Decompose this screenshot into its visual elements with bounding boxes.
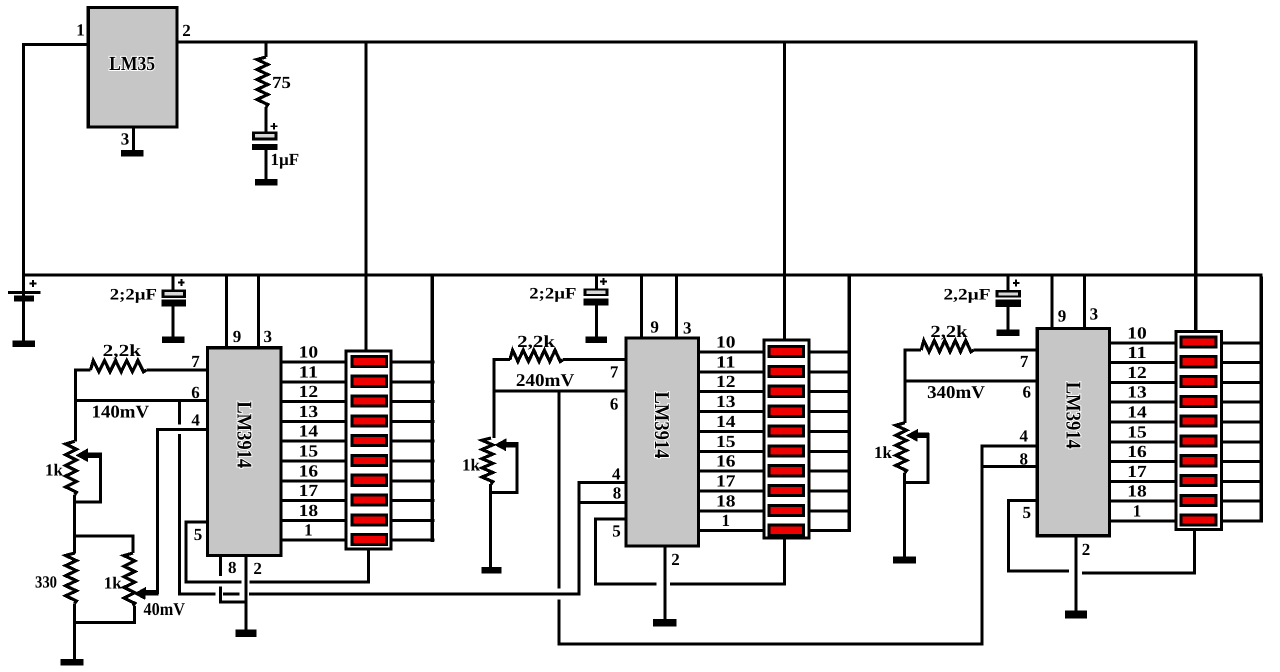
wire pin4 vertical to wiper 40mV <box>156 428 159 594</box>
wire bus to capacitor C3 <box>1006 277 1009 291</box>
wire IC3 to LED3 row 14 <box>1111 421 1175 424</box>
svg-text:4: 4 <box>1020 427 1029 446</box>
wire IC1 pin3 from bus <box>257 277 260 347</box>
wire LED1 row 14 to anode bus <box>393 440 435 443</box>
wire chain right vertical to IC3 pin4 <box>981 445 984 644</box>
svg-text:LM35: LM35 <box>109 53 155 75</box>
wire C1 to ground <box>172 306 175 336</box>
ic U1 LM35 body <box>88 7 177 127</box>
battery B1 positive plate <box>8 291 41 294</box>
wire LED2 anode bus vertical <box>848 277 852 533</box>
svg-text:1k: 1k <box>104 574 123 593</box>
svg-text:3: 3 <box>121 130 130 149</box>
svg-text:10: 10 <box>716 333 736 352</box>
wire V+ bus horizontal <box>22 274 1263 277</box>
wire IC2 to LED2 row 15 <box>700 450 762 453</box>
svg-text:18: 18 <box>716 491 736 510</box>
svg-text:14: 14 <box>716 412 736 431</box>
svg-text:10: 10 <box>1127 323 1147 342</box>
svg-text:13: 13 <box>1127 383 1147 402</box>
wire line B 40mV left segment <box>178 592 215 595</box>
capacitor C1 bottom plate <box>161 300 186 307</box>
wire R1 to capacitor C0 <box>265 107 268 132</box>
wire IC1 pin8 lower segment <box>219 586 222 602</box>
wire IC1 to LED1 row 11 <box>283 380 345 383</box>
led DS2 segment 7 <box>769 466 804 476</box>
ground IC1 pin2 <box>235 630 256 637</box>
capacitor C1 2;2uF top plate <box>161 290 186 298</box>
svg-text:16: 16 <box>1127 442 1147 461</box>
wire top rail from LM35 pin2 to right side <box>178 41 1198 44</box>
wire IC2 to LED2 row 11 <box>700 370 762 373</box>
svg-text:8: 8 <box>228 558 237 577</box>
wire IC1 to LED1 row 14 <box>283 440 345 443</box>
wire LED2 row 15 to anode bus <box>810 450 851 453</box>
ground C1 <box>162 337 185 343</box>
wire LED1 anode bus vertical <box>431 277 435 542</box>
wire down to P2 <box>132 535 135 554</box>
svg-text:5: 5 <box>612 521 621 540</box>
wire LED3 row 18 to anode bus <box>1223 500 1261 503</box>
wire LED3 row 12 to anode bus <box>1223 381 1261 384</box>
wire IC2 to LED2 row 10 <box>700 351 762 354</box>
led DS2 segment 9 <box>769 505 804 515</box>
wire node140 vertical upper segment <box>178 399 181 425</box>
wire LED2 row 1 to anode bus <box>810 529 851 532</box>
svg-text:3: 3 <box>1090 305 1099 324</box>
svg-text:11: 11 <box>299 362 319 381</box>
led DS3 segment 8 <box>1181 476 1216 486</box>
wire LED3 row 14 to anode bus <box>1223 421 1261 424</box>
resistor R5 2,2k <box>921 341 973 352</box>
wire bus to capacitor C1 <box>172 277 175 290</box>
capacitor C2 bottom plate <box>584 298 609 305</box>
wire section1 to ground <box>73 603 76 659</box>
wire IC2 pin9 from bus <box>640 277 643 337</box>
svg-text:7: 7 <box>191 352 200 371</box>
wire pin5 vertical section3 <box>1007 499 1010 572</box>
wire LED1 row 11 to anode bus <box>393 380 435 383</box>
svg-text:2: 2 <box>182 21 191 40</box>
svg-text:14: 14 <box>299 422 319 441</box>
svg-text:9: 9 <box>233 327 242 346</box>
wire IC2 to LED2 row 12 <box>700 390 762 393</box>
wire IC3 to LED3 row 11 <box>1111 361 1175 364</box>
svg-text:2: 2 <box>253 559 262 578</box>
svg-text:13: 13 <box>716 392 736 411</box>
svg-text:2;2µF: 2;2µF <box>110 287 157 304</box>
ic U2 LM3914 body section1 <box>208 348 281 556</box>
svg-text:240mV: 240mV <box>516 370 574 390</box>
svg-text:2,2k: 2,2k <box>930 322 968 341</box>
led DS3 segment 2 <box>1181 357 1216 367</box>
wire IC3 pin3 from bus <box>1083 277 1086 327</box>
capacitor C2 2;2uF top plate <box>584 289 609 296</box>
wiper arrow P1 <box>84 452 101 458</box>
battery B1 negative plate <box>14 295 34 301</box>
wire IC1 to LED1 row 16 <box>283 479 345 482</box>
wire LED1 row 15 to anode bus <box>393 460 435 463</box>
plus sign C1 <box>178 282 185 284</box>
wire IC1 pin5 <box>184 521 206 524</box>
wire LED1 row 16 to anode bus <box>393 479 435 482</box>
wire IC2 pin4 vertical to line B <box>577 481 580 595</box>
led DS2 segment 10 <box>769 525 804 535</box>
wire left vertical section2 <box>492 358 495 438</box>
ground P4 <box>893 557 916 564</box>
svg-text:140mV: 140mV <box>92 402 150 422</box>
wire below P4 to ground <box>903 473 906 557</box>
wire IC2 to LED2 row 18 <box>700 509 762 512</box>
wire LED3 anode bus vertical <box>1260 277 1264 523</box>
wire LED2 feed from top rail <box>783 44 786 339</box>
ground P3 <box>481 567 501 573</box>
svg-text:11: 11 <box>1127 343 1147 362</box>
resistor R4 2,2k <box>510 350 563 361</box>
wire IC3 pin5 <box>1007 499 1036 502</box>
svg-text:15: 15 <box>1127 422 1147 441</box>
led DS2 segment 6 <box>769 446 804 456</box>
resistor R2 2,2k <box>91 361 147 372</box>
svg-text:5: 5 <box>194 525 203 544</box>
svg-text:330: 330 <box>35 573 57 592</box>
wiper arrow P4 <box>913 433 929 439</box>
wire IC3 to LED3 row 17 <box>1111 480 1175 483</box>
wire stub left of resistor R5 <box>904 349 922 352</box>
svg-text:17: 17 <box>1127 462 1147 481</box>
capacitor C0 bottom plate <box>252 144 278 150</box>
wire battery to ground <box>22 301 25 340</box>
led DS3 segment 3 <box>1181 377 1216 387</box>
wire LED3 row 13 to anode bus <box>1223 401 1261 404</box>
svg-text:40mV: 40mV <box>144 599 186 619</box>
led bargraph DS1 body <box>346 351 391 549</box>
svg-text:1: 1 <box>722 511 731 530</box>
wire IC2 pin8 <box>577 501 624 504</box>
wire IC1 to LED1 row 12 <box>283 400 345 403</box>
svg-text:12: 12 <box>716 372 736 391</box>
led DS1 segment 6 <box>352 455 386 465</box>
wire IC2 to LED2 row 1 <box>700 529 762 532</box>
wire chain bottom horizontal <box>557 642 983 645</box>
svg-text:1: 1 <box>76 20 85 39</box>
wire IC1 to LED1 row 17 <box>283 499 345 502</box>
led DS2 segment 3 <box>769 386 804 396</box>
svg-text:LM3914: LM3914 <box>232 401 256 468</box>
led DS1 segment 2 <box>352 376 386 386</box>
wire wiper loop bottom P1 <box>73 501 102 504</box>
wire top rail from LM35 pin1 to left drop <box>22 43 87 46</box>
wire IC1 pin2 to ground <box>245 557 248 630</box>
resistor R1 75 ohm <box>257 57 268 107</box>
led DS1 segment 3 <box>352 396 386 406</box>
led DS2 segment 1 <box>769 347 804 357</box>
wire IC2 pin3 from bus <box>675 277 678 337</box>
wire pin5 vertical <box>184 521 187 584</box>
wire IC3 to LED3 row 16 <box>1111 460 1175 463</box>
svg-text:9: 9 <box>650 317 659 336</box>
wire IC3 pin6 <box>904 379 1036 382</box>
led DS1 segment 1 <box>352 356 386 366</box>
wire LM35 pin3 stub <box>132 129 135 151</box>
svg-text:17: 17 <box>716 472 736 491</box>
svg-text:12: 12 <box>299 382 319 401</box>
svg-text:7: 7 <box>1020 352 1029 371</box>
wire IC3 pin9 from bus <box>1051 277 1054 327</box>
led DS2 segment 8 <box>769 486 804 496</box>
wire left vertical drop to V+ bus <box>22 43 25 277</box>
wiper arrow P3 <box>502 442 517 448</box>
wire C0 to ground <box>265 150 268 179</box>
wire stub left of resistor R2 <box>74 369 90 372</box>
led DS3 segment 10 <box>1181 515 1216 525</box>
wire wiper loop vertical P1 <box>99 453 102 504</box>
wire below P1 <box>73 495 76 554</box>
svg-text:8: 8 <box>613 484 622 503</box>
wire LED2 row 11 to anode bus <box>810 370 851 373</box>
wire IC2 pin2 to ground <box>663 548 666 619</box>
ground section1 divider <box>61 659 84 666</box>
svg-text:11: 11 <box>716 352 736 371</box>
wire junction to P2 top <box>73 535 134 538</box>
svg-text:2: 2 <box>1082 540 1091 559</box>
svg-text:1k: 1k <box>45 461 64 480</box>
svg-text:1k: 1k <box>874 443 893 462</box>
wire line A pin5 left segment <box>184 581 241 584</box>
wire IC3 to LED3 row 10 <box>1111 341 1175 344</box>
wire LED1 row 1 to anode bus <box>393 539 435 542</box>
wire P2 bottom vertical <box>133 606 136 623</box>
ground battery <box>13 341 35 347</box>
wire LED2 cathode drop <box>783 539 786 584</box>
svg-text:4: 4 <box>612 465 621 484</box>
svg-text:1: 1 <box>1133 502 1142 521</box>
potentiometer P3 1k section2 <box>482 438 493 484</box>
wire node140 vertical lower segment to line B <box>178 434 181 595</box>
wire IC3 to LED3 row 13 <box>1111 401 1175 404</box>
wire LED2 row 16 to anode bus <box>810 470 851 473</box>
wire IC3 pin8 <box>981 465 1036 468</box>
wire IC3 pin4 <box>981 445 1036 448</box>
led DS1 segment 7 <box>352 475 386 485</box>
svg-text:2,2µF: 2,2µF <box>944 286 991 303</box>
svg-text:18: 18 <box>299 501 319 520</box>
wire wiper loop bottom P3 <box>490 491 519 494</box>
wire R4 to IC2 pin7 <box>563 358 624 361</box>
wire stub left of resistor R4 <box>492 358 510 361</box>
wire below P3 to ground <box>489 484 492 567</box>
wiper arrow P2 40mV <box>140 590 158 596</box>
wire LED3 row 10 to anode bus <box>1223 341 1261 344</box>
svg-text:1: 1 <box>304 521 313 540</box>
wire IC2 to LED2 row 16 <box>700 470 762 473</box>
potentiometer P1 1k section1 <box>66 441 77 495</box>
potentiometer P4 1k section3 <box>896 423 907 473</box>
led DS2 segment 2 <box>769 366 804 376</box>
led DS1 segment 8 <box>352 495 386 505</box>
wire IC1 pin8 upper segment <box>219 557 222 576</box>
wire left vertical section1 <box>74 369 77 442</box>
wire wiper loop vertical P4 <box>926 433 929 484</box>
plus sign C0 <box>271 125 278 127</box>
svg-text:16: 16 <box>716 452 736 471</box>
svg-text:15: 15 <box>299 442 319 461</box>
svg-text:3: 3 <box>683 318 692 337</box>
potentiometer P2 1k 40mV <box>124 553 135 606</box>
wire LED2 row 10 to anode bus <box>810 351 851 354</box>
wire R2 to IC1 pin7 <box>146 369 206 372</box>
capacitor C3 2,2uF top plate <box>995 290 1021 297</box>
svg-text:LM3914: LM3914 <box>1061 382 1085 449</box>
wire pin5 loop left segment section2 <box>594 582 657 585</box>
wire IC1 to LED1 row 18 <box>283 519 345 522</box>
wire IC2 to LED2 row 17 <box>700 490 762 493</box>
svg-text:2,2k: 2,2k <box>517 332 555 351</box>
wire pin8 to pin2 jumper <box>219 601 248 604</box>
wire chain vertical upper segment section2 <box>557 393 560 589</box>
wire chain vertical lower segment section2 <box>557 599 560 645</box>
ic U4 LM3914 body section3 <box>1037 328 1109 535</box>
svg-text:2: 2 <box>671 550 680 569</box>
svg-text:6: 6 <box>1022 383 1031 402</box>
wire pin5 loop right segment section2 <box>670 582 786 585</box>
ground IC2 pin2 <box>653 619 676 626</box>
led DS1 segment 9 <box>352 515 386 525</box>
wire wiper loop vertical P3 <box>515 442 518 494</box>
wire P2 bottom to main <box>73 621 136 624</box>
ground LM35 pin3 <box>121 150 144 156</box>
wire IC1 to LED1 row 1 <box>283 539 345 542</box>
led DS3 segment 1 <box>1181 337 1216 347</box>
wire left vertical section3 <box>904 349 907 423</box>
svg-text:1k: 1k <box>462 456 481 475</box>
led DS3 segment 6 <box>1181 436 1216 446</box>
svg-text:75: 75 <box>272 73 291 92</box>
wire LED1 feed from top rail <box>365 44 368 350</box>
led bargraph DS3 body <box>1176 332 1221 530</box>
wire LED2 row 12 to anode bus <box>810 390 851 393</box>
wire LED3 cathode drop <box>1193 531 1196 574</box>
wire IC3 to LED3 row 18 <box>1111 500 1175 503</box>
svg-text:17: 17 <box>299 481 319 500</box>
wire C3 to ground <box>1006 307 1009 330</box>
svg-text:1µF: 1µF <box>271 150 300 169</box>
battery B1 plus sign <box>30 283 37 285</box>
wire LED2 row 14 to anode bus <box>810 430 851 433</box>
wire IC1 to LED1 row 13 <box>283 420 345 423</box>
svg-text:6: 6 <box>191 383 200 402</box>
wire LED3 row 11 to anode bus <box>1223 361 1261 364</box>
capacitor C0 1uF polarized top plate <box>252 132 278 141</box>
svg-text:2;2µF: 2;2µF <box>529 286 576 303</box>
svg-text:8: 8 <box>1020 450 1029 469</box>
led DS1 segment 5 <box>352 436 386 446</box>
svg-text:6: 6 <box>610 394 619 413</box>
wire bus to capacitor C2 <box>595 277 598 289</box>
svg-text:9: 9 <box>1058 307 1067 326</box>
wire LED2 row 17 to anode bus <box>810 490 851 493</box>
led DS2 segment 5 <box>769 426 804 436</box>
svg-text:340mV: 340mV <box>927 382 985 402</box>
wire IC1 pin9 from bus <box>225 277 228 347</box>
svg-text:13: 13 <box>299 402 319 421</box>
wire IC1 to LED1 row 10 <box>283 361 345 364</box>
svg-text:5: 5 <box>1023 503 1032 522</box>
wire IC1 pin4 <box>156 428 206 431</box>
svg-text:18: 18 <box>1127 482 1147 501</box>
led DS3 segment 5 <box>1181 416 1216 426</box>
capacitor C3 bottom plate <box>995 300 1021 307</box>
wire LED1 row 13 to anode bus <box>393 420 435 423</box>
led bargraph DS2 body <box>764 340 809 538</box>
wire C2 to ground <box>595 305 598 336</box>
svg-text:14: 14 <box>1127 403 1147 422</box>
ground C0 <box>255 179 277 185</box>
led DS1 segment 4 <box>352 416 386 426</box>
wire LED1 row 12 to anode bus <box>393 400 435 403</box>
wire LED1 row 17 to anode bus <box>393 499 435 502</box>
wire pin5 loop right segment section3 <box>1082 571 1196 574</box>
wire IC3 to LED3 row 1 <box>1111 520 1175 523</box>
wire pin5 loop left segment section3 <box>1007 570 1069 573</box>
wire LED3 feed from top rail <box>1194 41 1198 331</box>
svg-text:2,2k: 2,2k <box>103 341 142 360</box>
wire IC3 to LED3 row 12 <box>1111 381 1175 384</box>
ground C2 <box>585 337 607 343</box>
wire LED2 row 13 to anode bus <box>810 410 851 413</box>
wire IC1 pin6 <box>74 399 206 402</box>
wire IC2 pin6 <box>492 390 624 393</box>
wire line B middle segment <box>223 592 240 595</box>
wire IC2 to LED2 row 13 <box>700 410 762 413</box>
wire line B right segment to IC2 pin4 <box>249 592 580 595</box>
svg-text:4: 4 <box>191 411 200 430</box>
ground IC3 pin2 <box>1065 611 1087 619</box>
wire IC2 pin4 <box>577 481 624 484</box>
wire from rail down to resistor R1 <box>265 44 268 58</box>
wire IC3 pin2 to ground <box>1075 537 1078 610</box>
led DS3 segment 4 <box>1181 396 1216 406</box>
plus sign C3 <box>1013 282 1020 284</box>
ic U3 LM3914 body section2 <box>626 338 699 546</box>
wire LED3 row 1 to anode bus <box>1223 520 1261 523</box>
led DS3 segment 9 <box>1181 495 1216 505</box>
wire IC3 to LED3 row 15 <box>1111 440 1175 443</box>
wire IC2 to LED2 row 14 <box>700 430 762 433</box>
led DS1 segment 10 <box>352 535 386 545</box>
svg-text:16: 16 <box>299 461 319 480</box>
wire LED3 row 17 to anode bus <box>1223 480 1261 483</box>
wire bus to battery <box>22 277 25 296</box>
wire wiper loop bottom P4 <box>903 481 930 484</box>
wire line A pin5 right segment <box>250 581 370 584</box>
svg-text:LM3914: LM3914 <box>650 392 674 459</box>
plus sign C2 <box>600 281 607 283</box>
wire LED3 row 15 to anode bus <box>1223 440 1261 443</box>
svg-text:7: 7 <box>610 362 619 381</box>
wire pin5 vertical section2 <box>594 518 597 586</box>
svg-text:10: 10 <box>299 343 319 362</box>
svg-text:15: 15 <box>716 432 736 451</box>
wire LED2 row 18 to anode bus <box>810 509 851 512</box>
wire R5 to IC3 pin7 <box>974 349 1036 352</box>
led DS2 segment 4 <box>769 406 804 416</box>
svg-text:12: 12 <box>1127 363 1147 382</box>
wire LED1 cathode drop <box>367 551 370 584</box>
wire IC1 to LED1 row 15 <box>283 460 345 463</box>
ground C3 <box>996 330 1019 337</box>
wire IC2 pin5 <box>594 518 624 521</box>
